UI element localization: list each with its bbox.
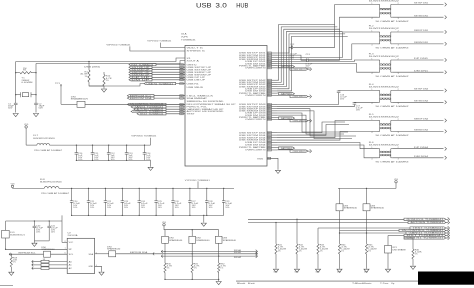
svg-text:GND: GND: [337, 272, 341, 274]
svg-text:54: 54: [180, 79, 183, 81]
net flag RST__TUSB8041: [404, 234, 446, 236]
ground row1: [150, 160, 152, 166]
svg-text:C12: C12: [111, 153, 115, 155]
svg-text:1-4&2W: 1-4&2W: [278, 248, 287, 250]
svg-text:16V: 16V: [356, 110, 360, 112]
svg-text:RP1: RP1: [393, 247, 398, 249]
ground R43: [315, 269, 320, 272]
svg-text:SSRXM DN1: SSRXM DN1: [414, 42, 428, 44]
svg-text:FL8: FL8: [40, 179, 45, 181]
svg-text:18pF: 18pF: [39, 106, 45, 108]
svg-text:46: 46: [180, 113, 183, 115]
capacitor C22 row2: [105, 188, 106, 189]
svg-text:90 OHMS AT 100MHZ: 90 OHMS AT 100MHZ: [376, 47, 409, 50]
net flag ROM_POL__TUSB8041: [404, 218, 446, 220]
resistor RN6 DNI spare box: [191, 230, 193, 237]
svg-text:0.1uF: 0.1uF: [305, 64, 312, 66]
ground for R10: [103, 86, 105, 89]
svg-text:HUB: HUB: [236, 2, 249, 9]
svg-text:4.02K: 4.02K: [415, 252, 422, 254]
net flag GANG1_TUSB8041: [131, 106, 166, 108]
svg-text:4.7K: 4.7K: [368, 246, 374, 248]
svg-text:GND: GND: [295, 272, 299, 274]
resistor R44 strap: [339, 233, 341, 244]
wire choke FL3 output DM DN1 with arrow: [392, 71, 443, 73]
wire EEPROM_SDA net: [116, 253, 257, 255]
svg-text:V1P1VDD TUSB8041: V1P1VDD TUSB8041: [185, 180, 210, 182]
svg-text:10V: 10V: [175, 205, 179, 207]
svg-text:4.7K: 4.7K: [278, 246, 284, 248]
net flag AUTOEN__TUSB8041: [408, 221, 446, 223]
power symbol VDD row2: [11, 185, 13, 187]
svg-text:15: 15: [268, 84, 271, 86]
svg-text:VDD-T In: VDD-T In: [187, 48, 203, 50]
svg-text:T-Blank: T-Blank: [352, 283, 364, 285]
svg-text:R10: R10: [106, 76, 111, 78]
capacitor C14 row1: [144, 144, 145, 145]
capacitor C11 row1: [92, 144, 93, 145]
svg-text:OVERCURR4 N: OVERCURR4 N: [293, 151, 306, 153]
wire U1 DM_DN4 to choke FL6: [277, 145, 378, 158]
wire U2 GND pin: [95, 266, 102, 271]
svg-text:USB: USB: [196, 2, 212, 9]
svg-text:1-4&2W: 1-4&2W: [368, 248, 377, 250]
capacitor C13 row1: [126, 144, 127, 145]
svg-text:53: 53: [180, 83, 183, 85]
svg-text:SSRXP DN1: SSRXP DN1: [414, 30, 428, 32]
svg-text:10V: 10V: [225, 205, 229, 207]
svg-text:0.4G/8M: 0.4G/8M: [22, 82, 34, 84]
resistor R43 strap: [317, 228, 319, 244]
svg-text:C1: C1: [8, 104, 11, 106]
svg-text:EEPROM SDA: EEPROM SDA: [130, 251, 149, 254]
svg-text:ROM POL TUSB8041: ROM POL TUSB8041: [407, 219, 444, 221]
resistor R4: [88, 62, 90, 71]
ground R45: [364, 269, 369, 272]
svg-text:TP1: TP1: [55, 83, 60, 85]
net flag BATPME2: [279, 93, 295, 95]
svg-text:C23: C23: [124, 201, 128, 203]
svg-text:DLW21SN900SQ2: DLW21SN900SQ2: [369, 145, 399, 147]
net flag SSTXM_UP: [129, 69, 152, 71]
wire strap net AUTOEN__TUSB8041: [248, 222, 408, 224]
svg-text:DM DN1: DM DN1: [414, 70, 428, 72]
wire U1 SSTXP_DN3 via C16 to choke FL4: [277, 93, 339, 105]
svg-text:C2: C2: [39, 104, 42, 106]
svg-text:DM UP: DM UP: [131, 80, 149, 82]
net flag GANG1__TUSB8041: [406, 232, 446, 234]
svg-text:0.1uF: 0.1uF: [141, 203, 148, 205]
svg-text:DLW21SN900SQ2: DLW21SN900SQ2: [369, 86, 399, 88]
svg-text:10: 10: [268, 63, 271, 65]
svg-text:10V: 10V: [124, 205, 128, 207]
resistor RN9 DNI spare: [366, 188, 368, 203]
net flag DM_UP: [129, 79, 152, 81]
wire choke FL2 output SSRXP DN1 with arrow: [392, 31, 443, 33]
wire divider: [89, 82, 104, 86]
svg-text:10V: 10V: [90, 205, 94, 207]
node XOUT wire: [36, 61, 185, 64]
resistor RP1 DNI box: [387, 236, 389, 246]
svg-text:R42: R42: [299, 244, 303, 246]
svg-text:R31: R31: [194, 264, 198, 266]
capacitor C12 row1: [108, 144, 109, 145]
svg-text:0.1uF: 0.1uF: [124, 203, 131, 205]
resistor RN8 DNI spare: [339, 188, 341, 203]
wire bundle DN2 staircase: [277, 25, 335, 81]
wire choke FL5 output SSRXM DN4 with arrow: [392, 130, 443, 132]
capacitor C10 row1: [76, 144, 77, 145]
wire crystal right column: [35, 64, 37, 102]
wire choke FL4 output SSTXM DN4 with arrow: [392, 101, 443, 103]
svg-text:C12: C12: [290, 44, 294, 46]
svg-text:C26: C26: [175, 201, 179, 203]
wire strap net SN_CONTROL__TUSB8041: [340, 230, 400, 232]
svg-text:0.1uF: 0.1uF: [340, 96, 347, 98]
svg-text:90 OHMS AT 100MHZ: 90 OHMS AT 100MHZ: [376, 20, 409, 23]
wire strap net USB_R1__TUSB8041: [404, 237, 413, 239]
ground R42: [294, 269, 299, 272]
svg-text:10V: 10V: [158, 205, 162, 207]
capacitor C24 row2: [139, 188, 140, 189]
wire sw bottom rail: [165, 278, 219, 280]
svg-text:VQFN: VQFN: [181, 36, 189, 38]
svg-text:C29: C29: [225, 201, 229, 203]
wire USB_R1 net: [89, 84, 144, 86]
svg-text:BLM18PG221SN1D: BLM18PG221SN1D: [33, 138, 56, 140]
net flag DP_UP: [129, 76, 152, 78]
svg-text:DP DN4: DP DN4: [414, 147, 428, 149]
svg-text:16V: 16V: [128, 157, 132, 159]
wire U1 DP_DN1 to choke FL3: [277, 60, 378, 61]
svg-text:SSTXM DN1: SSTXM DN1: [414, 15, 428, 17]
IC U2 24C02A eeprom box: [67, 238, 94, 273]
svg-text:V1P1VDD TUSB8041: V1P1VDD TUSB8041: [147, 41, 171, 43]
svg-text:DM DN4: DM DN4: [414, 156, 428, 158]
net flag OVERCURR4_N with arrow: [277, 149, 290, 151]
svg-text:10K: 10K: [13, 259, 17, 261]
svg-text:C40: C40: [36, 225, 40, 227]
op-amp U1 hub controller TUSB8041 box: [185, 46, 267, 167]
svg-text:C24: C24: [141, 201, 145, 203]
wire row2 bottom rail: [72, 214, 224, 216]
ferrite bead FL7 BLM18PG221SN1D: [26, 144, 37, 146]
svg-text:GND: GND: [316, 272, 320, 274]
svg-text:10V: 10V: [192, 205, 196, 207]
ground for C2: [33, 114, 38, 117]
svg-text:R32: R32: [220, 264, 224, 266]
ground R41: [273, 269, 278, 272]
net flag SSRXP_UP: [129, 71, 152, 73]
wire choke FL6 output DP DN4 with arrow: [392, 148, 443, 150]
svg-text:OVERCURR N: OVERCURR N: [245, 95, 267, 97]
svg-text:V3P3VDD TUSB8041: V3P3VDD TUSB8041: [131, 136, 156, 138]
svg-text:0.1uF: 0.1uF: [107, 203, 114, 205]
ground R44: [337, 269, 342, 272]
capacitor C25 row2: [155, 188, 156, 189]
svg-text:16: 16: [268, 86, 271, 88]
power symbol VDD sw block: [163, 224, 165, 226]
svg-text:OVERCURR3 N: OVERCURR3 N: [293, 120, 306, 122]
capacitor C20 row2: [71, 188, 72, 189]
svg-text:C17: C17: [356, 106, 360, 108]
svg-text:DLW21SN900SQ2: DLW21SN900SQ2: [369, 0, 399, 2]
svg-text:28: 28: [268, 119, 271, 121]
ground R46: [410, 266, 415, 269]
svg-text:0.1uF: 0.1uF: [73, 203, 80, 205]
svg-text:4.7K: 4.7K: [220, 266, 226, 268]
wire U1 SSTXP_DN1 via C12 to choke FL1: [277, 47, 291, 53]
wire choke FL5 output SSRXP DN4 with arrow: [392, 120, 443, 122]
svg-text:23: 23: [268, 108, 271, 110]
common-mode choke FL3 DLW21SN900SQ2: [378, 59, 380, 61]
svg-text:OVERCURR N: OVERCURR N: [245, 68, 267, 70]
capacitor C26 row2: [172, 188, 173, 189]
wire row1 bottom rail: [76, 159, 150, 161]
svg-text:SMBBUSz S0 SUSPEND: SMBBUSz S0 SUSPEND: [187, 101, 225, 103]
ground U2: [99, 272, 104, 275]
svg-text:16V: 16V: [340, 98, 344, 100]
svg-text:USB VBUS: USB VBUS: [187, 87, 205, 89]
svg-text:24C02A: 24C02A: [68, 234, 79, 237]
svg-text:56: 56: [180, 74, 183, 76]
svg-text:TEST TUSB8041: TEST TUSB8041: [140, 114, 164, 116]
wire DN3 DP DM staircase: [277, 113, 348, 132]
svg-text:C27: C27: [192, 201, 196, 203]
svg-text:DLW21SN900SQ2: DLW21SN900SQ2: [369, 28, 399, 30]
resistor R30 sw pulldown: [164, 263, 166, 273]
svg-text:A1: A1: [69, 264, 72, 267]
svg-text:U1A: U1A: [181, 33, 187, 36]
svg-text:R41: R41: [278, 244, 282, 246]
net flag TEST_TUSB8041: [137, 113, 166, 115]
svg-text:4.7K: 4.7K: [320, 246, 326, 248]
svg-text:FL7: FL7: [33, 135, 38, 137]
svg-text:OVERCURR N: OVERCURR N: [245, 119, 267, 121]
resistor R1: [16, 72, 20, 74]
ground R19: [10, 267, 12, 272]
net flag EEPROM_SCL: [127, 95, 154, 97]
ferrite bead FL8 BLM18PG221SN1D: [13, 187, 45, 189]
resistor DNI ERA3AEB562V: [61, 103, 77, 105]
net flag BATPME4: [279, 147, 295, 149]
svg-text:GND: GND: [364, 272, 368, 274]
svg-text:T-Two: T-Two: [380, 283, 388, 285]
svg-text:OVERCURR1 N: OVERCURR1 N: [293, 69, 306, 71]
wire DN4 SSTX staircase: [277, 122, 345, 133]
net flag OVERCURR1_N with arrow: [277, 67, 290, 69]
resistor R46: [412, 238, 414, 249]
capacitor C27 row2: [189, 188, 190, 189]
svg-text:26: 26: [268, 115, 271, 117]
svg-text:STRING In: STRING In: [187, 51, 205, 53]
svg-text:Blank: Blank: [237, 283, 245, 285]
svg-text:24: 24: [268, 111, 271, 113]
capacitor C2: [35, 102, 37, 104]
svg-text:1uF: 1uF: [146, 155, 150, 157]
ground sw block: [218, 279, 220, 281]
wire U2 VCC pin: [62, 241, 67, 243]
crystal Y1: [16, 94, 21, 96]
resistor R19 pulldown: [10, 254, 12, 257]
svg-text:VDD: VDD: [24, 124, 28, 126]
common-mode choke FL2 DLW21SN900SQ2: [378, 31, 380, 33]
ground VSS: [275, 170, 280, 173]
svg-text:R19: R19: [13, 257, 17, 259]
svg-text:51: 51: [180, 98, 183, 100]
wire crystal left column: [15, 62, 17, 102]
wire strap net ROM_POL__TUSB8041: [248, 218, 404, 220]
svg-text:VDD: VDD: [394, 179, 398, 181]
resistor RN7 DNI spare box: [218, 230, 220, 237]
svg-text:VDD: VDD: [162, 222, 166, 224]
net flag OVERCURR3_N with arrow: [277, 119, 290, 121]
svg-text:R44: R44: [341, 244, 345, 246]
svg-text:OVERCURR N: OVERCURR N: [245, 150, 267, 152]
svg-text:22: 22: [268, 106, 271, 108]
svg-text:13: 13: [268, 80, 271, 82]
resistor R32 sw pulldown: [218, 263, 220, 273]
svg-text:0.1uF: 0.1uF: [175, 203, 182, 205]
svg-text:21: 21: [268, 104, 271, 106]
svg-text:20: 20: [268, 95, 271, 97]
svg-text:OVERCURR2 N: OVERCURR2 N: [293, 96, 306, 98]
svg-text:10V: 10V: [209, 205, 213, 207]
wire U1 SSTXM_DN1 via C13 to choke FL1: [277, 55, 307, 60]
svg-text:C25: C25: [158, 201, 162, 203]
resistor DNI spare on SDA: [109, 251, 116, 257]
svg-text:C10: C10: [78, 153, 82, 155]
svg-text:16V: 16V: [111, 157, 115, 159]
svg-text:90 OHMS AT 100MHZ: 90 OHMS AT 100MHZ: [376, 161, 409, 164]
svg-text:25: 25: [268, 113, 271, 115]
svg-text:SSRXM DN4: SSRXM DN4: [414, 130, 428, 132]
svg-text:USB R1: USB R1: [187, 83, 199, 85]
svg-text:0.1uF: 0.1uF: [158, 203, 165, 205]
svg-text:0.1uF: 0.1uF: [90, 203, 97, 205]
resistor R41 strap: [275, 223, 277, 244]
svg-text:14: 14: [268, 82, 271, 84]
title block divider line: [236, 280, 419, 282]
wire SN_CONTROL to IC: [85, 103, 185, 105]
net flag SN_CONTROL_TUSB8041: [127, 103, 166, 105]
svg-text:DLW21SN900SQ2: DLW21SN900SQ2: [369, 56, 399, 58]
wire SW_A0: [161, 251, 257, 253]
svg-text:R4: R4: [85, 71, 88, 73]
svg-text:18pF: 18pF: [8, 106, 14, 108]
svg-text:4.7K: 4.7K: [299, 246, 305, 248]
wire SW_A2: [161, 255, 257, 257]
svg-text:90 OHMS AT 100MHZ: 90 OHMS AT 100MHZ: [376, 134, 409, 137]
svg-text:1uF: 1uF: [78, 155, 82, 157]
wire U1 DP_DN4 to choke FL6: [277, 143, 378, 149]
svg-text:C11: C11: [94, 153, 98, 155]
svg-text:17: 17: [268, 89, 271, 91]
svg-text:0.1uF: 0.1uF: [225, 203, 232, 205]
svg-text:1uF: 1uF: [111, 155, 115, 157]
power symbol VDD row1: [25, 126, 27, 128]
common-mode choke FL5 DLW21SN900SQ2: [378, 120, 380, 122]
net flag ROM_POL_TUSB8041: [131, 110, 166, 112]
svg-text:DP DN1: DP DN1: [414, 58, 428, 60]
resistor RN5 DNI spare box: [164, 230, 166, 237]
wire strap net GANG1__TUSB8041: [340, 232, 407, 234]
svg-text:0.1uF: 0.1uF: [51, 227, 58, 229]
svg-text:C28: C28: [209, 201, 213, 203]
svg-text:A2: A2: [69, 267, 72, 270]
capacitor C41: [49, 220, 50, 221]
net flag USB_R1__TUSB8041: [404, 237, 446, 239]
svg-text:SSTXP DN4: SSTXP DN4: [414, 89, 428, 91]
wire U2 WP pin: [6, 248, 68, 250]
resistor R31 sw pulldown: [191, 263, 193, 273]
ground eeprom caps: [34, 240, 49, 242]
redacted title block: [418, 272, 474, 285]
svg-text:USB DM UP: USB DM UP: [187, 80, 207, 82]
svg-text:R46: R46: [415, 250, 419, 252]
svg-text:XOUT A: XOUT A: [187, 60, 201, 63]
svg-text:BLM18SG121: BLM18SG121: [10, 234, 25, 236]
svg-text:USB R1 TUSB8041: USB R1 TUSB8041: [407, 238, 444, 240]
wire sw vdd rail: [165, 229, 219, 231]
capacitor C29 row2: [223, 188, 224, 189]
svg-text:4.7K: 4.7K: [194, 266, 200, 268]
svg-text:R43: R43: [320, 244, 324, 246]
svg-text:GND: GND: [274, 272, 278, 274]
net flag OVERCURR2_N with arrow: [277, 94, 290, 96]
svg-text:19: 19: [268, 93, 271, 95]
wire VCC rail eeprom: [6, 220, 62, 222]
svg-text:C41: C41: [51, 225, 55, 227]
svg-text:V3P3VDD TUSB8041: V3P3VDD TUSB8041: [106, 44, 130, 46]
wire strap vdd rail: [338, 187, 396, 189]
title block left edge line: [0, 285, 13, 287]
svg-text:SSTXP DN1: SSTXP DN1: [414, 3, 428, 5]
resistor DNI spare on SCL: [44, 251, 51, 257]
net flag AUTOEN_TUSB8041: [134, 108, 166, 110]
svg-text:10V: 10V: [36, 229, 40, 231]
svg-text:4.7uF: 4.7uF: [36, 227, 43, 229]
svg-text:USB (XIN): USB (XIN): [84, 66, 100, 68]
svg-text:18: 18: [268, 91, 271, 93]
svg-text:16V: 16V: [146, 157, 150, 159]
svg-text:10V: 10V: [73, 205, 77, 207]
svg-text:C21: C21: [90, 201, 94, 203]
net flag TEST__TUSB8041: [410, 227, 446, 229]
svg-text:TUSB8041: TUSB8041: [181, 40, 197, 42]
svg-text:1-4&2W: 1-4&2W: [341, 248, 350, 250]
svg-text:1-4&2W: 1-4&2W: [299, 248, 308, 250]
svg-text:C14: C14: [146, 153, 150, 155]
svg-text:BLM18PG221SN1D: BLM18PG221SN1D: [40, 182, 63, 184]
resistor R42 strap: [296, 219, 298, 244]
svg-text:10V: 10V: [51, 229, 55, 231]
svg-text:0.1uF: 0.1uF: [192, 203, 199, 205]
net flag SN_CONTROL__TUSB8041: [399, 229, 446, 231]
resistor network RN1 address lines: [32, 260, 33, 263]
capacitor C21 row2: [88, 188, 89, 189]
wire choke FL3 output DP DN1 with arrow: [392, 59, 443, 61]
svg-text:C22: C22: [107, 201, 111, 203]
wire strap net TEST__TUSB8041: [318, 227, 410, 229]
common-mode choke FL6 DLW21SN900SQ2: [378, 148, 380, 150]
svg-text:1uF: 1uF: [94, 155, 98, 157]
wire U1 DM_DN1 to choke FL3: [277, 64, 378, 73]
svg-text:3.0: 3.0: [215, 2, 227, 9]
svg-text:36: 36: [268, 158, 271, 160]
capacitor C28 row2: [206, 188, 207, 189]
wire U1 SSRXM_DN4 to choke FL5: [277, 131, 378, 140]
